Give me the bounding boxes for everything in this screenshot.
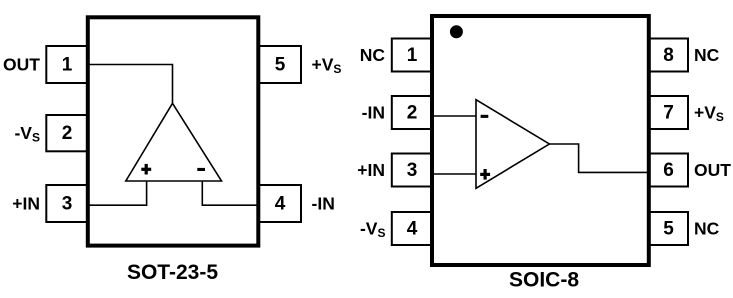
svg-text:OUT: OUT bbox=[3, 55, 40, 75]
wire pin4 to op-amp minus bbox=[202, 181, 258, 205]
wire pin3 to op-amp plus (SOIC-8) bbox=[432, 173, 476, 175]
pin 6 box bbox=[649, 154, 689, 187]
svg-text:NC: NC bbox=[360, 45, 386, 65]
pin 5 box bbox=[258, 46, 301, 83]
op-amp U1 minus input mark bbox=[197, 168, 205, 171]
pin 1 box bbox=[46, 46, 88, 83]
pin 4 box bbox=[258, 185, 301, 222]
svg-text:5: 5 bbox=[663, 219, 674, 240]
svg-text:SOIC-8: SOIC-8 bbox=[509, 269, 579, 292]
svg-text:OUT: OUT bbox=[694, 160, 731, 180]
op-amp U2 minus input mark bbox=[481, 115, 489, 118]
pin 3 box (SOIC-8) bbox=[392, 154, 432, 187]
IC package body SOIC-8 bbox=[432, 16, 649, 265]
pin 7 box bbox=[649, 96, 689, 129]
svg-text:8: 8 bbox=[663, 45, 674, 66]
svg-text:1: 1 bbox=[407, 45, 418, 66]
pin 1 indicator dot bbox=[450, 25, 463, 38]
wire pin2 to op-amp minus (SOIC-8) bbox=[432, 115, 476, 117]
svg-text:6: 6 bbox=[663, 160, 674, 181]
svg-text:4: 4 bbox=[407, 219, 418, 240]
svg-text:5: 5 bbox=[275, 55, 286, 76]
svg-text:SOT-23-5: SOT-23-5 bbox=[127, 261, 218, 284]
pin 3 box bbox=[46, 185, 88, 222]
op-amp U1 plus input mark bbox=[141, 164, 151, 175]
wire op-amp output to pin 6 bbox=[549, 144, 648, 172]
svg-text:NC: NC bbox=[694, 219, 720, 239]
svg-text:-IN: -IN bbox=[362, 103, 385, 123]
svg-text:+IN: +IN bbox=[12, 194, 40, 214]
svg-text:2: 2 bbox=[62, 123, 73, 144]
op-amp U1 triangle (SOT-23-5) bbox=[126, 103, 222, 181]
svg-text:3: 3 bbox=[62, 194, 73, 215]
wire pin3 to op-amp plus bbox=[88, 181, 147, 205]
pin 4 box (SOIC-8) bbox=[392, 212, 432, 245]
svg-text:7: 7 bbox=[663, 103, 674, 124]
svg-text:NC: NC bbox=[694, 45, 720, 65]
svg-text:1: 1 bbox=[62, 55, 73, 76]
svg-text:4: 4 bbox=[275, 194, 286, 215]
svg-text:-IN: -IN bbox=[312, 194, 335, 214]
svg-text:+IN: +IN bbox=[357, 160, 385, 180]
op-amp U2 triangle (SOIC-8) bbox=[476, 100, 549, 189]
svg-text:2: 2 bbox=[407, 103, 418, 124]
pin 2 box bbox=[46, 115, 88, 151]
op-amp U2 plus input mark bbox=[480, 169, 490, 180]
svg-text:3: 3 bbox=[407, 160, 418, 181]
pin 2 box (SOIC-8) bbox=[392, 96, 432, 129]
IC package body SOT-23-5 bbox=[88, 17, 258, 245]
pin 5 box (SOIC-8) bbox=[649, 212, 689, 245]
pin 1 box (SOIC-8) bbox=[392, 39, 432, 72]
pin 8 box bbox=[649, 39, 689, 72]
wire pin1 to op-amp input bbox=[88, 65, 173, 104]
